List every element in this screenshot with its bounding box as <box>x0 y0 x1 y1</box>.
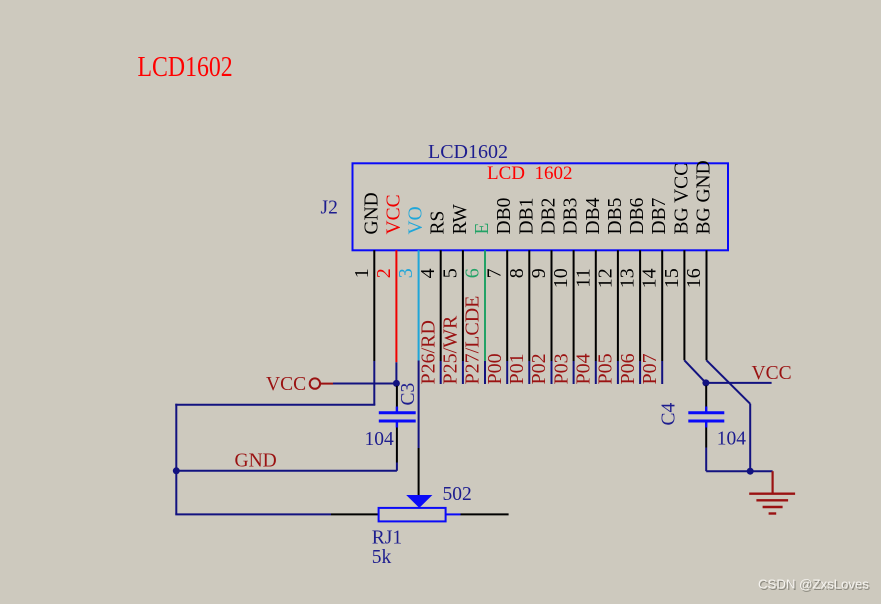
wire GND rail to C3 bottom <box>176 470 397 472</box>
wire pin13 down <box>639 250 641 361</box>
wire pin15 BG VCC down + diagonal <box>683 250 685 360</box>
wire pin1 GND down <box>373 250 375 361</box>
svg-text:DB2: DB2 <box>539 198 560 235</box>
wire pin5 down <box>462 250 464 361</box>
capacitor C4 <box>705 386 707 407</box>
svg-text:P04: P04 <box>573 353 595 384</box>
capacitor C3 <box>396 386 398 407</box>
wire pin12 down <box>617 250 619 361</box>
svg-text:P06: P06 <box>617 353 639 384</box>
svg-text:15: 15 <box>661 268 683 288</box>
svg-text:P05: P05 <box>595 353 617 384</box>
svg-text:11: 11 <box>572 268 594 287</box>
svg-text:P00: P00 <box>484 353 506 384</box>
wire pin7 down <box>506 250 508 361</box>
ground symbol <box>771 471 773 494</box>
wire pin4 down <box>440 250 442 361</box>
wire pin10 down <box>573 250 575 361</box>
svg-text:GND: GND <box>235 451 277 472</box>
svg-text:8: 8 <box>506 268 528 278</box>
svg-text:104: 104 <box>717 429 747 450</box>
svg-text:VCC: VCC <box>383 194 404 234</box>
svg-text:E: E <box>472 223 493 235</box>
svg-text:P02: P02 <box>528 353 550 384</box>
svg-text:RW: RW <box>450 204 471 235</box>
node junction pin2/VCC/C3 <box>393 380 400 387</box>
svg-text:5k: 5k <box>372 547 392 568</box>
svg-text:104: 104 <box>365 429 395 450</box>
svg-text:DB0: DB0 <box>494 198 515 235</box>
svg-text:3: 3 <box>395 268 417 278</box>
svg-text:P27/LCDE: P27/LCDE <box>462 296 484 385</box>
svg-text:LCD1602: LCD1602 <box>138 51 233 82</box>
svg-text:BG VCC: BG VCC <box>671 163 692 235</box>
svg-text:9: 9 <box>528 268 550 278</box>
svg-text:DB6: DB6 <box>627 197 648 234</box>
svg-text:13: 13 <box>617 268 639 288</box>
svg-text:LCD 1602: LCD 1602 <box>487 163 573 184</box>
svg-text:10: 10 <box>550 268 572 288</box>
svg-text:P07: P07 <box>639 353 661 384</box>
node junction pin15/VCC/C4 <box>702 379 709 386</box>
svg-text:5: 5 <box>439 268 461 278</box>
svg-text:VO: VO <box>406 206 427 234</box>
svg-text:P03: P03 <box>550 353 572 384</box>
svg-text:BG GND: BG GND <box>694 160 715 234</box>
svg-text:DB5: DB5 <box>605 198 626 235</box>
svg-text:P26/RD: P26/RD <box>417 320 439 384</box>
svg-text:1: 1 <box>351 268 373 278</box>
svg-text:2: 2 <box>373 268 395 278</box>
wire pin16 BG GND down + diagonal <box>706 250 708 360</box>
wire pin3 VO down (cyan) <box>418 250 420 360</box>
svg-text:C4: C4 <box>658 402 679 425</box>
svg-text:6: 6 <box>462 268 484 278</box>
wire pin8 down <box>528 250 530 361</box>
svg-text:P25/WR: P25/WR <box>440 315 462 385</box>
wire pin11 down <box>595 250 597 361</box>
svg-text:7: 7 <box>484 268 506 278</box>
svg-text:4: 4 <box>417 268 439 278</box>
svg-text:RJ1: RJ1 <box>372 528 402 549</box>
node junction GND rail <box>173 467 180 474</box>
wire GND run left <box>175 404 375 406</box>
svg-text:GND: GND <box>361 192 382 234</box>
svg-text:P01: P01 <box>506 353 528 384</box>
svg-text:VCC: VCC <box>752 363 792 384</box>
wire C4 bottom to ground <box>706 470 772 472</box>
wire GND rail down to RJ1 <box>175 471 177 515</box>
svg-text:LCD1602: LCD1602 <box>428 141 508 163</box>
node junction C4/gnd <box>747 468 754 475</box>
svg-text:J2: J2 <box>321 198 338 219</box>
svg-text:DB4: DB4 <box>583 197 604 234</box>
svg-text:CSDN @ZxsLoves: CSDN @ZxsLoves <box>758 577 869 592</box>
wire VCC stub right <box>706 382 772 384</box>
wire pin2 VCC down (red) <box>395 250 397 362</box>
svg-text:12: 12 <box>594 268 616 288</box>
wire pin6 down <box>484 250 486 361</box>
wire pin9 down <box>551 250 553 361</box>
potentiometer RJ1 <box>331 513 379 515</box>
wire pin14 down <box>661 250 663 361</box>
svg-text:16: 16 <box>683 268 705 288</box>
svg-text:RS: RS <box>428 211 449 235</box>
svg-text:DB7: DB7 <box>649 197 670 234</box>
wire VCC to pin2 node <box>333 383 396 385</box>
svg-text:VCC: VCC <box>266 374 306 395</box>
svg-text:DB3: DB3 <box>561 198 582 235</box>
svg-text:502: 502 <box>443 484 472 505</box>
svg-text:C3: C3 <box>398 383 419 406</box>
connector J2 body <box>353 163 729 250</box>
svg-text:14: 14 <box>639 268 661 288</box>
svg-text:DB1: DB1 <box>516 198 537 235</box>
